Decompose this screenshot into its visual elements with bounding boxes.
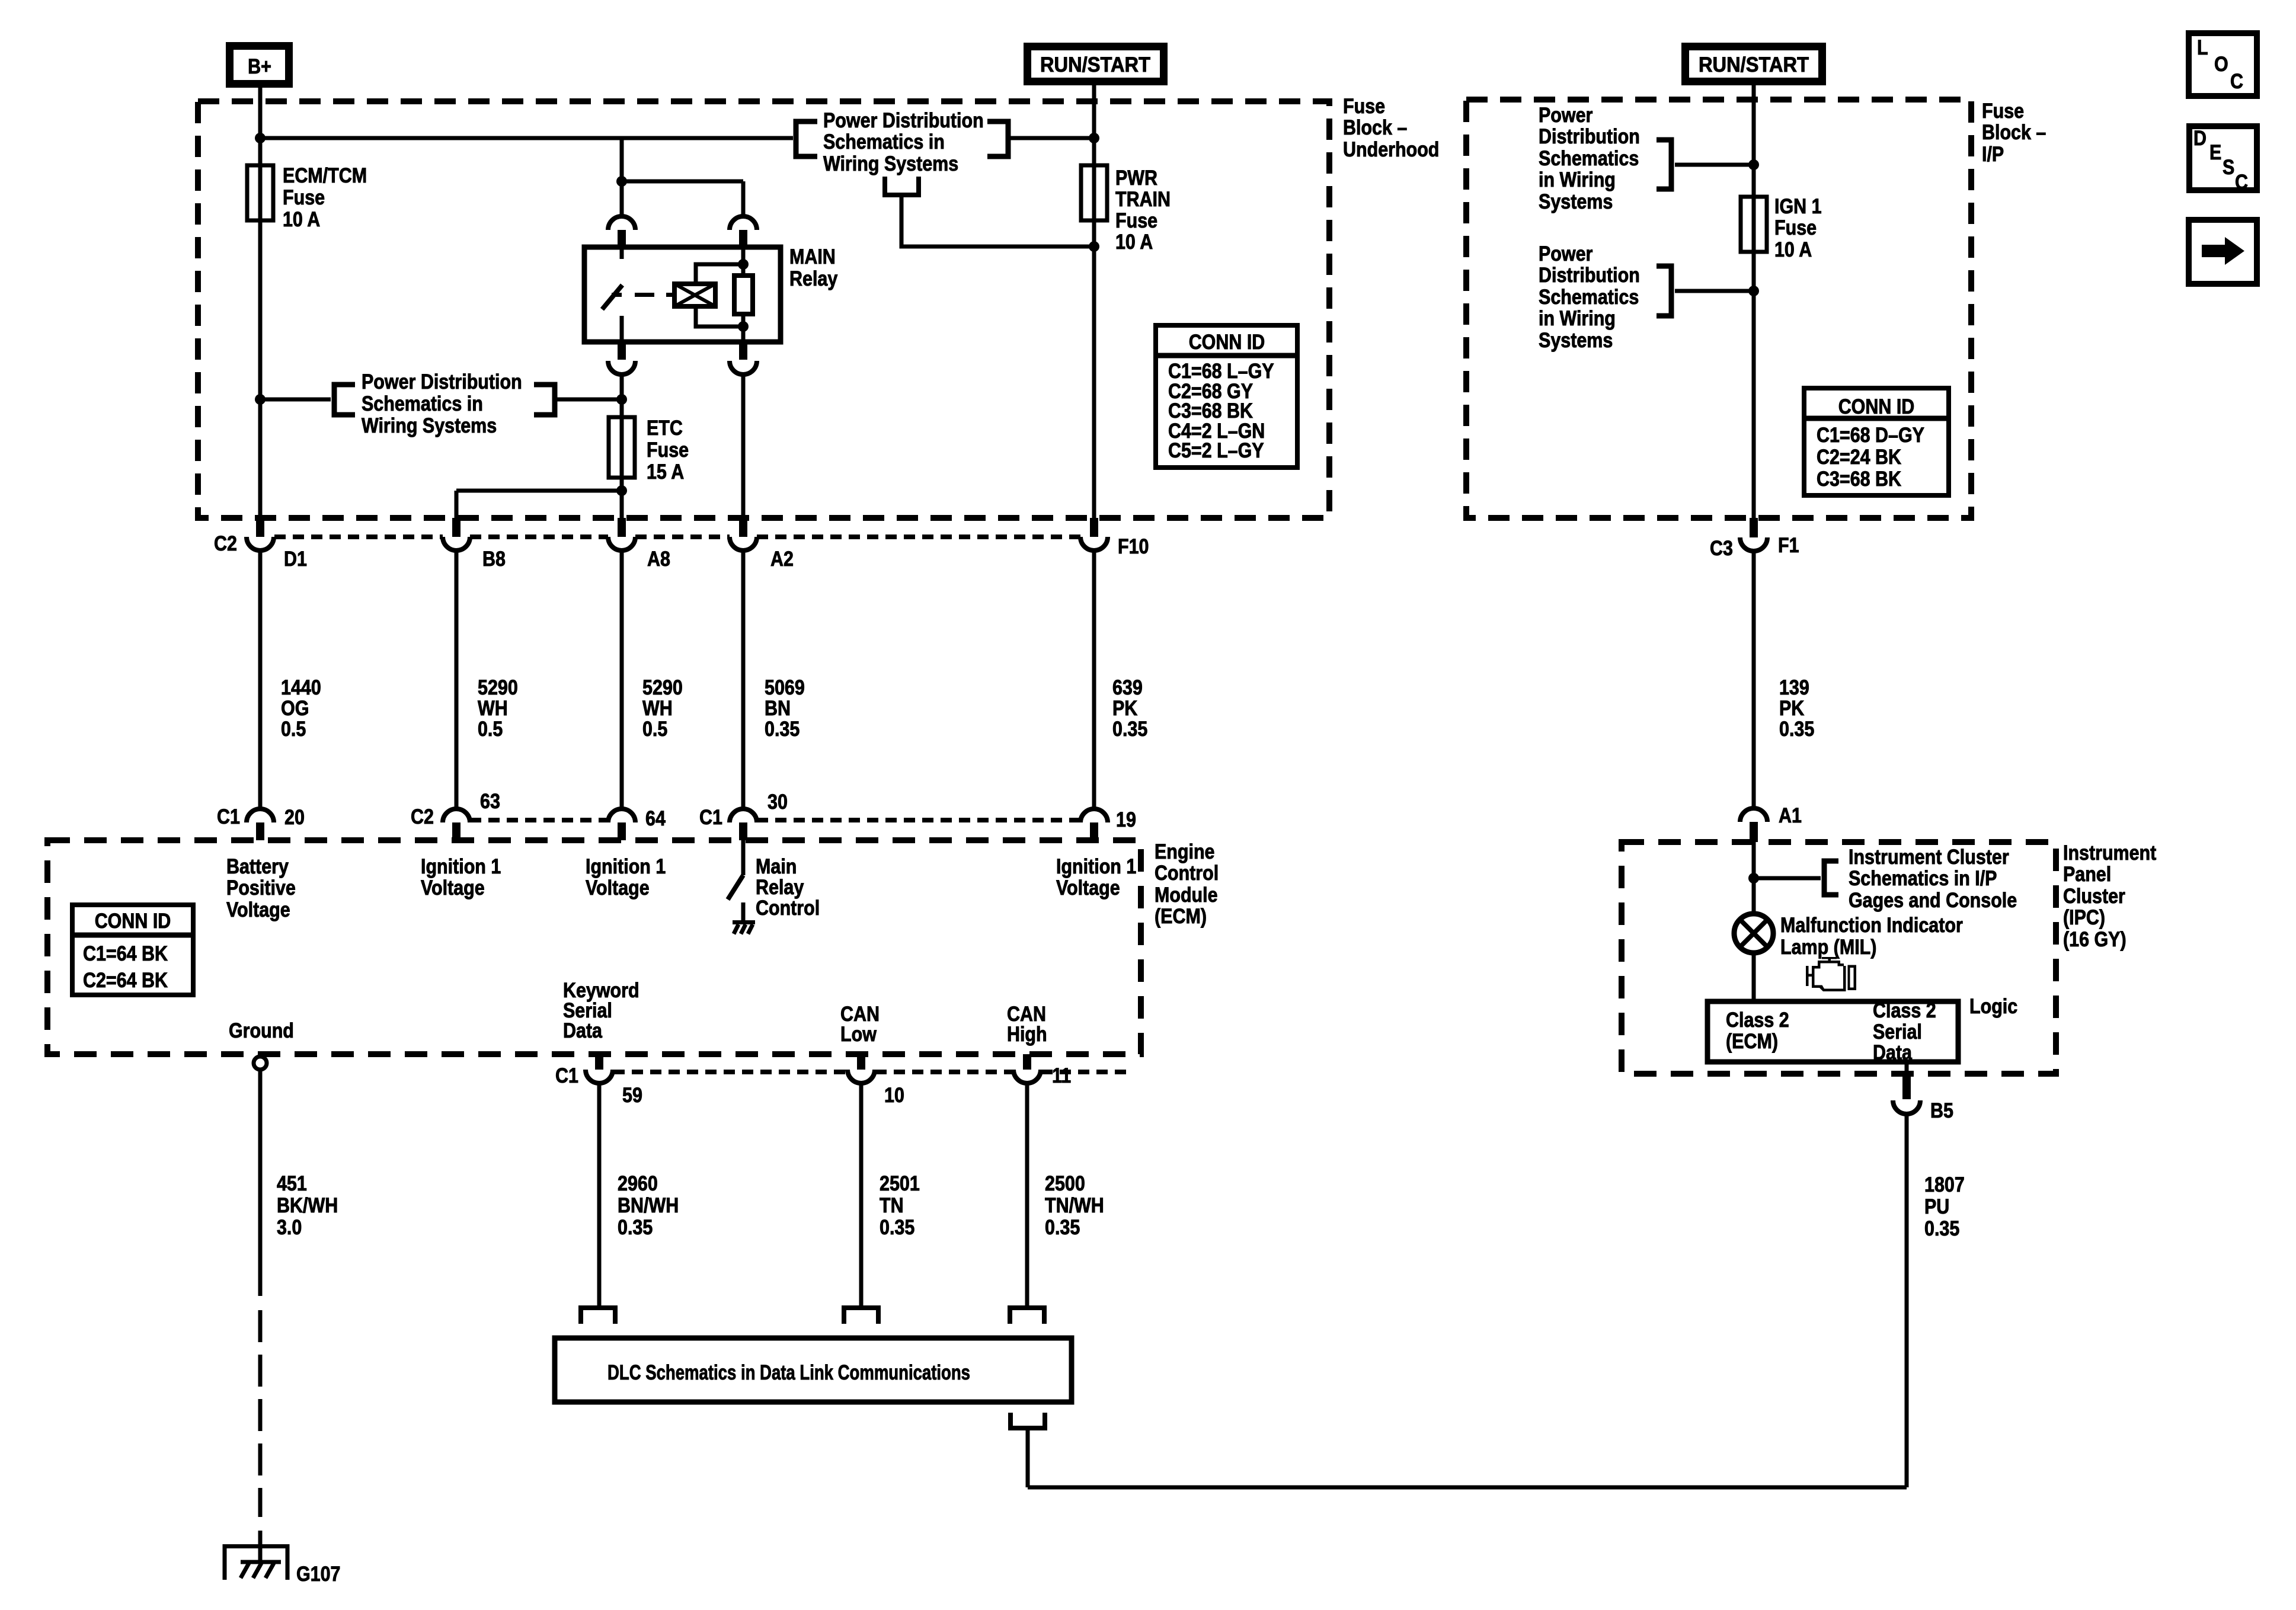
svg-text:A2: A2: [770, 548, 794, 571]
svg-text:Engine: Engine: [1155, 840, 1215, 863]
svg-text:PK: PK: [1779, 697, 1804, 720]
svg-text:Module: Module: [1155, 884, 1218, 907]
svg-text:Control: Control: [756, 897, 820, 920]
svg-text:B8: B8: [482, 548, 506, 571]
svg-text:Block –: Block –: [1982, 121, 2046, 144]
svg-text:ECM/TCM: ECM/TCM: [283, 164, 367, 187]
svg-text:15 A: 15 A: [647, 460, 684, 484]
svg-text:Schematics: Schematics: [1539, 147, 1639, 170]
svg-text:0.35: 0.35: [618, 1216, 653, 1239]
connector arc pin A1: [1740, 808, 1767, 822]
svg-text:0.35: 0.35: [1779, 718, 1814, 741]
svg-text:Ignition 1: Ignition 1: [586, 855, 666, 878]
connector arc relay top left: [608, 216, 635, 230]
connector arc pin 63: [443, 809, 470, 822]
svg-text:BN/WH: BN/WH: [618, 1194, 679, 1217]
svg-text:Distribution: Distribution: [1539, 125, 1640, 148]
svg-text:Low: Low: [840, 1023, 877, 1046]
svg-text:Control: Control: [1155, 862, 1219, 885]
svg-text:10 A: 10 A: [1774, 238, 1812, 261]
svg-text:64: 64: [645, 807, 666, 830]
svg-text:Instrument Cluster: Instrument Cluster: [1849, 846, 2009, 869]
svg-text:Cluster: Cluster: [2063, 885, 2125, 908]
svg-text:0.35: 0.35: [1045, 1216, 1080, 1239]
svg-text:C2=64 BK: C2=64 BK: [83, 969, 168, 992]
svg-text:C1: C1: [555, 1064, 578, 1087]
svg-text:D: D: [2193, 127, 2207, 150]
svg-text:(16 GY): (16 GY): [2063, 928, 2126, 951]
svg-text:Positive: Positive: [226, 876, 296, 900]
wire 2501: [859, 1083, 864, 1305]
svg-text:CONN ID: CONN ID: [1189, 331, 1265, 354]
wire B+ feed: [258, 88, 263, 518]
wire 5069 BN: [741, 550, 746, 808]
bracket power distribution bus left: [796, 121, 817, 156]
svg-text:PU: PU: [1924, 1195, 1949, 1218]
relay MAIN box: [584, 247, 781, 342]
ground G107 symbol: [225, 1547, 287, 1580]
junction relay coil top: [738, 259, 749, 270]
connector row dashes top: [274, 534, 443, 539]
svg-text:PK: PK: [1112, 697, 1137, 720]
wire stub I/P 1: [1675, 163, 1754, 167]
svg-text:Lamp (MIL): Lamp (MIL): [1780, 936, 1876, 959]
connector row dashes keyword: [613, 1070, 847, 1074]
junction relay feed: [616, 176, 627, 187]
svg-text:Power Distribution: Power Distribution: [362, 370, 522, 393]
wire A1 to MIL: [1752, 842, 1756, 914]
svg-text:0.35: 0.35: [765, 718, 800, 741]
wire DLC to B5: [1026, 1428, 1030, 1487]
svg-text:B5: B5: [1930, 1099, 1953, 1122]
bracket power distribution left-right: [534, 385, 555, 415]
connector pin arc 59: [595, 1054, 603, 1070]
svg-text:B+: B+: [248, 55, 271, 78]
wire stub to power distribution left: [260, 398, 331, 402]
svg-text:1440: 1440: [281, 676, 321, 699]
svg-text:C2=24 BK: C2=24 BK: [1817, 446, 1901, 469]
wire main relay control stub: [741, 902, 746, 920]
svg-text:Fuse: Fuse: [283, 186, 325, 209]
relay coil top leg: [696, 264, 743, 284]
svg-text:C2: C2: [214, 532, 237, 555]
connector pin arc 11: [1023, 1054, 1031, 1070]
wire 639 PK: [1092, 550, 1096, 808]
junction B+ bus: [255, 133, 266, 143]
svg-text:F10: F10: [1118, 535, 1149, 558]
svg-text:Voltage: Voltage: [226, 898, 290, 921]
wire main relay control: [741, 840, 746, 875]
svg-text:C1=64 BK: C1=64 BK: [83, 942, 168, 965]
svg-text:0.5: 0.5: [281, 718, 306, 741]
svg-text:(ECM): (ECM): [1726, 1030, 1778, 1053]
connector row dashes C1: [470, 818, 608, 822]
svg-text:Class 2: Class 2: [1873, 999, 1936, 1022]
svg-text:139: 139: [1779, 676, 1809, 699]
wire branch to B8: [456, 489, 622, 493]
svg-text:E: E: [2209, 141, 2221, 164]
bracket DLC CAN high: [1010, 1308, 1044, 1324]
svg-text:L: L: [2197, 36, 2208, 59]
connector pin arc 10: [857, 1054, 865, 1070]
junction relay coil bottom: [738, 321, 749, 332]
junction PWR TRAIN bottom: [1089, 241, 1099, 252]
svg-text:Logic: Logic: [1969, 995, 2017, 1018]
svg-text:Data: Data: [1873, 1041, 1912, 1064]
svg-text:ETC: ETC: [647, 417, 683, 440]
connector pin arc B5: [1902, 1074, 1911, 1099]
wire 2960: [597, 1083, 602, 1305]
svg-text:Schematics in: Schematics in: [362, 392, 483, 415]
svg-text:C1: C1: [699, 806, 722, 829]
svg-text:WH: WH: [478, 697, 508, 720]
svg-text:59: 59: [622, 1084, 642, 1107]
svg-text:Fuse: Fuse: [1115, 209, 1157, 232]
svg-text:(ECM): (ECM): [1155, 905, 1207, 928]
svg-text:10: 10: [884, 1084, 904, 1107]
svg-text:A8: A8: [647, 548, 670, 571]
wire MIL to logic: [1752, 953, 1756, 1001]
svg-text:3.0: 3.0: [277, 1216, 302, 1239]
relay mech link dashes: [612, 293, 622, 297]
wire relay coil down: [741, 375, 746, 518]
svg-text:BN: BN: [765, 697, 791, 720]
junction instrument cluster stub: [1748, 873, 1759, 884]
svg-text:OG: OG: [281, 697, 309, 720]
svg-text:MAIN: MAIN: [789, 245, 836, 268]
fuse block I/P dashed box: [1466, 100, 1971, 518]
connector pin arc F1: [1750, 518, 1758, 537]
svg-text:11: 11: [1052, 1064, 1071, 1087]
connector arc pin 19: [1080, 809, 1108, 822]
svg-text:Schematics: Schematics: [1539, 286, 1639, 309]
svg-text:Underhood: Underhood: [1343, 138, 1439, 161]
svg-text:C1: C1: [217, 805, 240, 828]
wire 5290 WH a8: [620, 550, 624, 808]
svg-text:F1: F1: [1778, 534, 1799, 557]
svg-text:in Wiring: in Wiring: [1539, 168, 1616, 191]
svg-text:Gages and Console: Gages and Console: [1849, 889, 2017, 912]
fuse IGN 1: [1741, 197, 1767, 252]
svg-text:S: S: [2223, 156, 2234, 179]
svg-text:19: 19: [1116, 808, 1136, 831]
svg-text:Ignition 1: Ignition 1: [1056, 855, 1136, 878]
wire 451 solid: [258, 1070, 263, 1296]
lamp MIL: [1734, 914, 1773, 953]
connector pin A8: [618, 518, 626, 537]
svg-text:451: 451: [277, 1172, 307, 1195]
svg-text:5069: 5069: [765, 676, 805, 699]
svg-text:2500: 2500: [1045, 1172, 1085, 1195]
wire stub bus to RUN/START: [1008, 136, 1094, 140]
svg-text:Relay: Relay: [756, 876, 804, 899]
relay resistor: [741, 249, 746, 276]
svg-text:10 A: 10 A: [1115, 231, 1153, 254]
svg-text:CONN ID: CONN ID: [1838, 395, 1915, 418]
wire RUN/START underhood down: [1092, 85, 1096, 518]
relay coil bottom leg: [696, 306, 743, 327]
fuse block underhood dashed box: [198, 101, 1329, 518]
junction PWR TRAIN top: [1089, 133, 1099, 143]
fuse ECM/TCM: [247, 165, 273, 220]
svg-text:C3=68 BK: C3=68 BK: [1817, 468, 1901, 491]
power feed box RUN/START underhood: [1028, 47, 1164, 82]
svg-text:High: High: [1007, 1023, 1047, 1046]
svg-text:C: C: [2235, 171, 2248, 194]
wire 139 PK: [1752, 551, 1756, 808]
connector arc pin 20: [247, 809, 274, 822]
junction I/P stub 2: [1748, 286, 1759, 296]
svg-text:Voltage: Voltage: [586, 876, 650, 900]
bracket power distribution I/P 1: [1657, 140, 1671, 189]
svg-text:Distribution: Distribution: [1539, 264, 1640, 287]
svg-text:Serial: Serial: [1873, 1020, 1922, 1044]
bracket DLC keyword: [581, 1308, 615, 1324]
connector arc D1: [247, 537, 274, 550]
svg-text:PWR: PWR: [1115, 167, 1157, 190]
svg-text:0.35: 0.35: [880, 1216, 914, 1239]
ground pin circle: [254, 1057, 267, 1070]
svg-text:C5=2 L–GY: C5=2 L–GY: [1168, 439, 1264, 462]
wire B+ bus: [260, 136, 793, 140]
svg-text:Systems: Systems: [1539, 190, 1613, 213]
svg-text:TRAIN: TRAIN: [1115, 188, 1171, 211]
bracket power distribution left-left: [334, 385, 355, 415]
svg-text:63: 63: [480, 790, 500, 813]
bracket instrument cluster: [1824, 861, 1838, 895]
CONN ID box I/P: [1804, 388, 1949, 495]
CONN ID box underhood: [1156, 325, 1297, 468]
power feed box B+: [230, 46, 289, 84]
power feed box RUN/START I/P: [1686, 47, 1822, 82]
connector pin F10: [1090, 518, 1098, 537]
svg-text:0.35: 0.35: [1924, 1217, 1959, 1240]
bracket power distribution I/P 2: [1657, 266, 1671, 316]
connector arc A2: [730, 537, 757, 550]
wire ETC down: [620, 375, 624, 518]
svg-text:RUN/START: RUN/START: [1699, 53, 1809, 76]
bracket DLC CAN low: [844, 1308, 878, 1324]
svg-text:Wiring Systems: Wiring Systems: [823, 152, 958, 175]
svg-text:Voltage: Voltage: [421, 876, 485, 900]
bracket power distribution under: [885, 177, 919, 195]
nav box DESC: [2189, 126, 2257, 190]
svg-text:TN: TN: [880, 1194, 904, 1217]
svg-text:Power Distribution: Power Distribution: [823, 109, 984, 132]
logic box: [1707, 1001, 1958, 1062]
svg-text:Panel: Panel: [2063, 863, 2111, 886]
connector pin A2: [739, 518, 747, 537]
svg-text:C: C: [2230, 70, 2243, 93]
icon check engine: [1812, 961, 1846, 991]
svg-text:Instrument: Instrument: [2063, 841, 2157, 865]
svg-text:Class 2: Class 2: [1726, 1009, 1789, 1032]
svg-text:D1: D1: [284, 548, 307, 571]
svg-text:Battery: Battery: [226, 855, 289, 878]
junction ETC out: [616, 485, 627, 496]
svg-text:0.35: 0.35: [1112, 718, 1147, 741]
svg-text:(IPC): (IPC): [2063, 906, 2105, 929]
svg-text:30: 30: [768, 790, 788, 814]
relay switch fixed stub: [620, 249, 624, 259]
bracket power distribution bus right: [987, 121, 1008, 156]
wire RUN/START I/P down: [1752, 85, 1756, 518]
junction ECM/TCM fuse stub: [255, 394, 266, 405]
relay switch bottom stub: [620, 316, 624, 342]
wire stub power distribution to ETC: [555, 398, 622, 402]
svg-text:C2: C2: [411, 805, 434, 828]
svg-text:Relay: Relay: [789, 267, 838, 290]
svg-text:C3: C3: [1710, 537, 1733, 560]
connector pin D1: [256, 518, 264, 537]
svg-text:Ignition 1: Ignition 1: [421, 855, 501, 878]
connector arc B8: [443, 537, 470, 550]
svg-text:WH: WH: [642, 697, 673, 720]
svg-text:Main: Main: [756, 855, 797, 878]
svg-text:A1: A1: [1779, 804, 1802, 827]
svg-text:CONN ID: CONN ID: [95, 910, 171, 933]
wire relay feed: [620, 138, 624, 216]
svg-text:Schematics in: Schematics in: [823, 130, 945, 153]
connector pin B8: [452, 518, 461, 537]
svg-text:Data: Data: [563, 1019, 602, 1042]
fuse PWR TRAIN: [1081, 165, 1107, 220]
svg-text:RUN/START: RUN/START: [1040, 53, 1150, 76]
svg-text:DLC Schematics in Data Link Co: DLC Schematics in Data Link Communicatio…: [607, 1361, 970, 1384]
wire 2500: [1025, 1083, 1029, 1305]
ECM dashed box: [47, 840, 1141, 1054]
svg-text:in Wiring: in Wiring: [1539, 307, 1616, 330]
connector arc pin 30: [730, 809, 757, 822]
svg-text:Fuse: Fuse: [647, 438, 689, 462]
svg-text:Systems: Systems: [1539, 329, 1613, 352]
wire stub instrument cluster: [1754, 876, 1821, 881]
junction I/P stub 1: [1748, 159, 1759, 170]
wire stub I/P 2: [1675, 289, 1754, 293]
wire 5290 WH b8: [455, 550, 459, 808]
connector arc A8: [608, 537, 635, 550]
svg-text:0.5: 0.5: [642, 718, 667, 741]
svg-text:Voltage: Voltage: [1056, 876, 1120, 900]
ground ECM internal: [733, 920, 755, 924]
relay switch blade: [602, 285, 622, 309]
svg-text:C1=68 D–GY: C1=68 D–GY: [1817, 424, 1924, 447]
svg-text:Schematics in I/P: Schematics in I/P: [1849, 867, 1997, 890]
connector arc relay bottom left: [618, 342, 626, 360]
IPC dashed box: [1622, 842, 2056, 1074]
svg-text:2501: 2501: [880, 1172, 920, 1195]
svg-text:Power: Power: [1539, 104, 1593, 127]
wire logic to B5: [1905, 1062, 1909, 1074]
connector arc pin 64: [608, 809, 635, 822]
switch main relay control blade: [728, 875, 743, 900]
svg-text:Wiring Systems: Wiring Systems: [362, 414, 497, 437]
svg-text:Fuse: Fuse: [1774, 216, 1817, 239]
svg-text:O: O: [2214, 53, 2228, 76]
svg-text:5290: 5290: [642, 676, 683, 699]
svg-text:I/P: I/P: [1982, 143, 2004, 166]
svg-text:0.5: 0.5: [478, 718, 503, 741]
wire 1440 OG: [258, 550, 263, 808]
svg-text:1807: 1807: [1924, 1173, 1965, 1196]
svg-text:10 A: 10 A: [283, 208, 320, 231]
CONN ID box ECM: [72, 905, 193, 995]
bracket DLC output: [1011, 1413, 1045, 1428]
fuse ETC: [609, 417, 635, 478]
svg-text:BK/WH: BK/WH: [277, 1194, 338, 1217]
svg-text:Fuse: Fuse: [1982, 100, 2024, 123]
wire power distribution to PWR TRAIN node: [901, 195, 1094, 247]
wire 451 dashed: [258, 1310, 263, 1342]
svg-text:Ground: Ground: [229, 1019, 294, 1042]
relay coil box: [674, 284, 715, 306]
connector arc F10: [1080, 537, 1108, 550]
junction ETC stub: [616, 394, 627, 405]
svg-text:TN/WH: TN/WH: [1045, 1194, 1104, 1217]
svg-text:Malfunction Indicator: Malfunction Indicator: [1780, 914, 1963, 937]
svg-text:639: 639: [1112, 676, 1143, 699]
svg-text:5290: 5290: [478, 676, 518, 699]
svg-text:IGN 1: IGN 1: [1774, 195, 1822, 218]
nav box arrow: [2189, 220, 2257, 284]
svg-text:Block –: Block –: [1343, 116, 1407, 139]
connector arc relay bottom right: [739, 342, 747, 360]
svg-text:Fuse: Fuse: [1343, 95, 1385, 118]
svg-text:2960: 2960: [618, 1172, 658, 1195]
svg-text:20: 20: [284, 806, 305, 829]
connector arc relay top right: [730, 216, 757, 230]
nav box LOC: [2189, 33, 2257, 96]
svg-text:G107: G107: [296, 1563, 341, 1586]
wire relay coil branch: [622, 180, 743, 184]
svg-text:Power: Power: [1539, 242, 1593, 265]
DLC box: [555, 1338, 1072, 1402]
